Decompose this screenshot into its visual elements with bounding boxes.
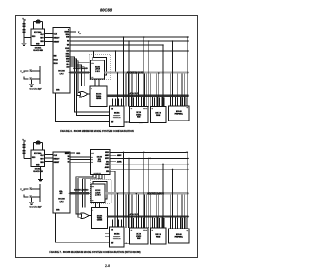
crystal Y1 <box>33 143 35 150</box>
wire <box>34 66 41 84</box>
svg-text:INT: INT <box>111 242 113 244</box>
data bus to memory <box>108 215 189 217</box>
interrupt controller U11 82C59A <box>110 227 125 247</box>
wire to transceiver T <box>83 175 103 208</box>
svg-text:HOLD: HOLD <box>65 48 69 50</box>
wire AIOWC stub <box>110 161 116 163</box>
svg-text:2K X 8: 2K X 8 <box>136 233 141 235</box>
wire <box>34 184 41 202</box>
transceiver U4 82C86 <box>90 86 107 107</box>
svg-text:MWTC: MWTC <box>105 158 109 160</box>
svg-text:CTLR: CTLR <box>97 161 101 163</box>
svg-text:82C82: 82C82 <box>95 190 100 192</box>
svg-text:RES: RES <box>40 162 43 164</box>
svg-text:CONTROLLER: CONTROLLER <box>113 238 121 240</box>
latch dashed enclosure <box>89 55 111 80</box>
bus taps into PROM <box>152 218 154 228</box>
svg-text:82C82: 82C82 <box>95 66 100 68</box>
junction dots <box>123 36 125 38</box>
wire DEN to or-gate <box>76 175 93 215</box>
svg-text:80C88: 80C88 <box>58 199 65 201</box>
svg-text:RD: RD <box>67 41 69 43</box>
wire MN/MX to GND stub <box>70 152 75 154</box>
wire <box>34 78 41 80</box>
svg-text:INT: INT <box>111 121 113 123</box>
wire end arrows <box>188 36 189 38</box>
wire <box>24 189 28 191</box>
svg-text:ADDRESS BUS: ADDRESS BUS <box>147 193 164 196</box>
svg-text:BUS: BUS <box>98 159 101 161</box>
resistor R <box>23 29 25 33</box>
svg-text:CS: CS <box>111 108 113 110</box>
svg-text:RES: RES <box>40 41 43 43</box>
bus taps into RAM <box>131 97 133 106</box>
wire <box>23 27 25 29</box>
wire latch to transceiver <box>94 80 96 86</box>
transceiver U10 82C86 <box>91 208 107 229</box>
wire INTA drop to interrupt controller <box>70 57 110 112</box>
wire or-gate to transceiver <box>89 215 91 217</box>
wire INTA to interrupt controller <box>110 171 115 227</box>
peripheral block <box>169 229 189 243</box>
svg-text:INTR: INTR <box>56 210 59 212</box>
wire data bus taps into interrupt controller <box>112 220 114 228</box>
wire S1 <box>70 159 91 161</box>
svg-text:RESET: RESET <box>54 162 59 164</box>
svg-text:DEN: DEN <box>66 59 69 61</box>
bus taps into peripheral <box>170 97 172 106</box>
svg-text:CPU: CPU <box>60 74 65 76</box>
svg-text:2K X 8: 2K X 8 <box>136 112 141 114</box>
svg-text:DATA BUS: DATA BUS <box>128 92 139 95</box>
wire <box>24 195 28 197</box>
svg-text:WE OD: WE OD <box>143 108 147 110</box>
wire stub CS <box>105 232 110 234</box>
capacitor C2 <box>29 77 33 79</box>
svg-text:82C84A: 82C84A <box>34 152 42 155</box>
svg-text:82C88: 82C88 <box>97 157 102 159</box>
latch U3 82C82 (stack) <box>93 58 107 76</box>
svg-text:MCS-80: MCS-80 <box>176 111 182 113</box>
address local bus arrow AD0-AD7 A8-A19 <box>70 71 89 73</box>
peripheral block <box>169 106 189 121</box>
wire READY <box>45 157 54 159</box>
svg-text:CLK: CLK <box>91 152 94 154</box>
wire <box>24 71 28 73</box>
svg-text:INTERRUPT: INTERRUPT <box>113 115 120 117</box>
bus controller U8 82C88 <box>91 150 110 175</box>
wire data bus taps into interrupt controller <box>112 99 114 107</box>
svg-text:STB: STB <box>92 186 95 188</box>
latch dashed enclosure <box>90 179 111 203</box>
address bus to memory <box>105 192 189 194</box>
interrupt controller U5 82C59A <box>110 106 125 126</box>
wire <box>34 196 41 198</box>
bus taps into RAM <box>131 218 133 228</box>
wire DEN drop to OR gate <box>70 63 80 95</box>
svg-text:82C84A: 82C84A <box>34 31 42 34</box>
svg-text:C1 = C2 = 22pF: C1 = C2 = 22pF <box>29 206 41 208</box>
wire <box>31 198 33 202</box>
svg-text:CPU: CPU <box>60 202 65 204</box>
resistor R <box>23 150 25 154</box>
svg-text:INTERRUPT: INTERRUPT <box>113 236 120 238</box>
svg-text:1, 2 OR 3: 1, 2 OR 3 <box>95 195 101 197</box>
PROM memory block <box>151 107 166 123</box>
latch U9 82C82 (stack) <box>93 182 107 200</box>
wire <box>31 80 33 84</box>
wire DT/R drop to OR gate <box>70 61 80 93</box>
svg-text:CEIVER: CEIVER <box>96 98 101 100</box>
bus taps into peripheral <box>170 218 172 229</box>
crystal Y1 <box>33 22 35 29</box>
wire clock GND <box>40 167 42 180</box>
svg-text:S1: S1 <box>68 159 70 161</box>
wire AMWC stub <box>110 154 116 156</box>
wire MWTC command line <box>110 157 189 159</box>
wire latch to transceiver <box>99 203 101 208</box>
ground <box>38 179 43 181</box>
svg-text:CS: CS <box>152 229 154 231</box>
wire address bus drops <box>117 195 119 227</box>
RAM memory block <box>130 107 149 123</box>
svg-text:WE OD: WE OD <box>143 229 147 231</box>
wire stub RD <box>105 236 110 238</box>
svg-text:CLOCK GEN: CLOCK GEN <box>33 171 43 173</box>
svg-text:GND: GND <box>76 153 81 155</box>
svg-text:V: V <box>68 29 69 31</box>
svg-text:AD0–AD7, A8–A19: AD0–AD7, A8–A19 <box>74 189 88 192</box>
wire RESET <box>45 161 54 163</box>
wire ALE stub into latch enclosure <box>93 51 95 58</box>
RAM memory block <box>130 228 149 244</box>
svg-text:STB: STB <box>91 63 94 65</box>
wire CLK <box>45 154 54 156</box>
ground <box>22 42 27 44</box>
svg-text:32K X 8: 32K X 8 <box>155 112 161 114</box>
CPU U2 80C88 <box>53 28 70 94</box>
wire INT out <box>124 121 137 123</box>
svg-text:MRDC: MRDC <box>105 152 109 154</box>
svg-text:82C86: 82C86 <box>97 215 102 217</box>
CPU U7 80C88 <box>53 152 70 213</box>
svg-text:CS: CS <box>111 229 113 231</box>
wire INTR to CPU <box>56 213 110 242</box>
wire to transceiver T pin <box>70 65 81 86</box>
PROM memory block <box>151 228 166 244</box>
wire ALE drop <box>114 51 116 71</box>
wire INT out <box>124 242 137 244</box>
svg-text:CS: CS <box>186 107 188 109</box>
capacitor C4 <box>29 195 33 197</box>
svg-text:RESET: RESET <box>54 41 59 43</box>
wire <box>23 141 25 144</box>
svg-text:CS: CS <box>186 230 188 232</box>
page border frame <box>16 16 198 258</box>
wire control drops <box>123 37 125 106</box>
wire or-gate to transceiver <box>88 93 90 95</box>
svg-text:CS: CS <box>131 108 133 110</box>
wire INTR to CPU <box>56 93 110 122</box>
clock generator U 82C84A <box>31 150 45 167</box>
wire IO/M control line <box>70 36 189 38</box>
svg-text:2 OR 3: 2 OR 3 <box>95 71 100 73</box>
wire <box>23 148 25 150</box>
svg-text:WR: WR <box>67 45 69 47</box>
capacitor C1 <box>29 69 33 71</box>
svg-text:INTR: INTR <box>56 90 59 92</box>
svg-text:S2: S2 <box>68 161 70 163</box>
svg-text:C1 = C2 = 22pF: C1 = C2 = 22pF <box>29 88 41 90</box>
svg-text:MN/MX: MN/MX <box>65 32 70 34</box>
wire to transceiver OE pin <box>70 67 84 86</box>
resistor R <box>23 144 25 148</box>
wire RES to clock <box>24 37 31 39</box>
svg-text:S0: S0 <box>68 156 70 158</box>
ground <box>29 83 34 85</box>
svg-text:AD0–AD7, A8–A19: AD0–AD7, A8–A19 <box>73 67 87 70</box>
resistor R <box>23 23 25 27</box>
svg-text:HOLD: HOLD <box>54 60 58 62</box>
svg-text:32K X 8: 32K X 8 <box>155 234 161 236</box>
or-gate DEN DT/R <box>81 213 89 219</box>
svg-text:CEIVER: CEIVER <box>97 220 102 222</box>
wire RES to clock <box>24 158 31 160</box>
svg-text:IORC: IORC <box>106 161 109 163</box>
wire ALE to latch STB <box>70 62 91 64</box>
wire latch to transceiver <box>95 203 97 208</box>
wire WR control line <box>70 44 163 46</box>
data bus to memory <box>107 95 188 97</box>
svg-text:CLOCK GEN: CLOCK GEN <box>33 50 43 52</box>
ground <box>29 201 34 203</box>
wire latch to transceiver <box>98 80 100 86</box>
svg-text:82C84A: 82C84A <box>35 47 42 50</box>
svg-text:OE: OE <box>92 200 94 202</box>
address local bus arrow <box>70 192 88 194</box>
svg-text:CS: CS <box>152 108 154 110</box>
svg-text:IOWC: IOWC <box>106 164 110 166</box>
wire <box>23 33 25 43</box>
wire to transceiver OE <box>104 175 106 180</box>
capacitor C3 <box>29 187 33 189</box>
or-gate RD/WR qualifier <box>80 91 88 97</box>
wire address bus drops <box>117 74 119 106</box>
wire <box>23 20 25 23</box>
svg-text:82C86: 82C86 <box>96 94 101 96</box>
address bus to memory <box>104 71 188 73</box>
junction dots <box>123 152 125 154</box>
wire CLK <box>45 33 54 35</box>
wire <box>23 154 25 159</box>
wire MRDC command line <box>110 151 187 153</box>
clock generator U 82C84A <box>31 29 45 46</box>
svg-text:80C88: 80C88 <box>58 71 65 73</box>
wire IORC command line <box>110 163 189 165</box>
wire S2 <box>70 161 91 163</box>
wire RD control line <box>70 40 189 42</box>
wire IOWC command line <box>110 168 189 170</box>
wire READY <box>45 37 54 39</box>
svg-text:FIGURE 7. 80C88 MAXIMUM MODE: FIGURE 7. 80C88 MAXIMUM MODE SYSTEM CONF… <box>49 250 140 254</box>
svg-text:CS: CS <box>131 229 133 231</box>
wire ALE down to latch <box>98 175 100 180</box>
wire DT/R to or-gate <box>78 175 96 218</box>
bus taps into PROM <box>152 97 154 106</box>
wire MN/MX to VCC stub <box>70 31 76 33</box>
svg-text:MN/MX: MN/MX <box>65 153 69 155</box>
wire <box>24 77 28 79</box>
wire control drops <box>123 152 125 227</box>
wire RESET <box>45 41 54 43</box>
wire ALE distribution line <box>70 50 189 52</box>
wire end arrows <box>188 158 189 160</box>
svg-text:2-8: 2-8 <box>105 264 110 268</box>
wire to latch OE <box>84 179 86 208</box>
svg-text:82C84A: 82C84A <box>35 168 42 171</box>
svg-text:MCS-80: MCS-80 <box>176 234 182 236</box>
svg-text:DATA BUS: DATA BUS <box>128 213 139 216</box>
wire IO/M drop to interrupt controller <box>70 59 110 116</box>
svg-text:OE: OE <box>91 77 93 79</box>
svg-text:FIGURE 6. 80C88 MINIMUM MODE: FIGURE 6. 80C88 MINIMUM MODE SYSTEM CONF… <box>60 129 134 133</box>
svg-text:CONTROLLER: CONTROLLER <box>113 117 121 119</box>
wire S0 <box>70 156 91 158</box>
svg-text:80C88: 80C88 <box>100 8 113 13</box>
